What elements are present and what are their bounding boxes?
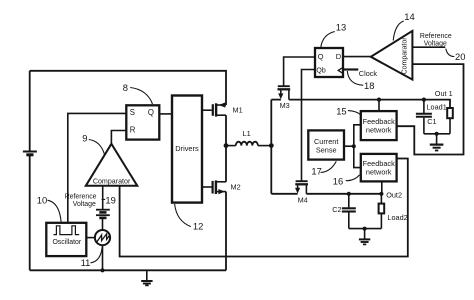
svg-text:D: D [336,52,342,61]
text reference voltage [65,194,97,208]
label 8 [123,82,153,104]
svg-text:R: R [130,126,136,135]
node ground tap 1 [435,132,439,136]
svg-text:Out2: Out2 [386,190,402,199]
transistor M2 [202,146,241,271]
wire FB2 output to comparator 9 plus input [120,159,408,257]
svg-text:13: 13 [336,22,346,33]
wire top supply [30,71,226,105]
svg-text:11: 11 [81,257,91,268]
label 12 [175,204,204,231]
wire comparator output to R [111,131,126,144]
svg-text:network: network [366,126,392,135]
node ground tap 2 [363,227,367,231]
wire current sense output [344,145,354,147]
battery Vin [23,71,37,270]
transistor M1 [202,102,243,145]
svg-text:Sense: Sense [316,146,337,155]
svg-text:Clock: Clock [359,69,378,78]
reference voltage battery 19 [96,210,110,231]
ground C1 [430,134,444,151]
svg-text:Comparator: Comparator [402,37,409,75]
ground C2 [359,229,370,245]
svg-text:Q: Q [148,108,154,117]
svg-text:Q: Q [318,52,324,61]
svg-text:8: 8 [123,82,128,93]
transistor M4 [295,181,308,204]
label 17 [311,161,336,176]
wire C2 Load2 join [349,228,382,230]
wire ground bus [30,269,226,271]
svg-text:Reference: Reference [420,33,452,40]
wire Q to drivers [159,113,172,115]
svg-text:Qb: Qb [316,67,325,74]
svg-text:Out 1: Out 1 [435,89,453,98]
svg-text:M3: M3 [280,101,290,110]
resistor Load2 [379,194,408,229]
current sense 17 [308,130,344,159]
ground [141,270,152,285]
svg-text:19: 19 [105,194,115,205]
feedback network 15 [361,111,397,140]
svg-text:Feedback: Feedback [363,159,395,168]
drivers 12 [172,96,202,203]
svg-text:10: 10 [37,195,47,206]
comparator U14 [371,31,413,80]
wire comparator minus input [102,186,104,209]
wire rail to M3 [271,99,281,101]
transistor M3 [278,86,291,110]
wire output rail [270,100,272,194]
text reference voltage right [420,33,452,47]
svg-text:M1: M1 [233,106,243,115]
inductor L1 [226,129,271,145]
wire D input from comparator 14 [343,56,371,58]
node Out2 C2 tap [347,192,351,196]
feedback network 16 [361,154,397,182]
svg-text:Oscillator: Oscillator [52,239,81,246]
node Out1 C1 tap [422,98,426,102]
label 11 [81,247,103,268]
wire Out1 line [289,100,450,108]
oscillator 10 [46,223,95,256]
svg-text:Drivers: Drivers [175,144,199,153]
wire rail to M4 [271,193,297,195]
svg-text:Comparator: Comparator [93,177,131,185]
svg-text:16: 16 [333,175,343,186]
svg-text:Voltage: Voltage [424,40,447,47]
sawtooth generator 11 [95,230,110,272]
wire FB input bus [354,125,361,168]
svg-text:M4: M4 [298,195,308,204]
wire C1 Load1 join [424,133,450,135]
svg-text:L1: L1 [243,129,251,138]
resistor Load1 [427,103,453,134]
svg-text:9: 9 [82,132,87,143]
svg-text:C1: C1 [427,117,436,126]
wire Q to M3 gate [284,57,315,86]
wire FB1 tap from Out1 [378,100,380,112]
svg-text:18: 18 [364,80,374,91]
label 16 [333,175,360,187]
label 10 [37,195,61,223]
capacitor C2 [332,194,356,229]
label 20 [446,49,466,62]
svg-text:Load1: Load1 [427,103,447,112]
svg-text:Reference: Reference [65,194,97,201]
svg-text:Feedback: Feedback [363,117,395,126]
wire FB2 tap from Out2 [381,181,383,193]
node FB1 tap [377,98,381,102]
svg-text:17: 17 [311,166,321,177]
comparator U9 [86,144,138,186]
label 9 [82,132,104,154]
label 13 [321,22,346,48]
svg-text:M2: M2 [231,182,241,191]
wire S input from oscillator [68,113,127,222]
label 18 [347,71,374,91]
node Out2 [379,192,383,196]
label 14 [393,11,415,41]
svg-text:S: S [130,108,135,117]
svg-text:network: network [366,168,392,177]
label 15 [336,106,360,117]
svg-text:14: 14 [404,11,414,22]
SR latch 8 [126,105,159,139]
wire Out2 line [306,193,382,195]
svg-text:Voltage: Voltage [73,201,96,208]
flip-flop 13 [315,48,343,77]
capacitor C1 [416,100,437,134]
wire Qb to M4 gate [302,70,316,181]
svg-text:C2: C2 [332,205,341,214]
svg-text:15: 15 [336,106,346,117]
svg-text:Load2: Load2 [387,213,407,222]
wire clock lead [343,68,358,70]
label 19 [102,194,116,205]
node CS junction [352,144,356,148]
wire comparator 14 feedback input from FB1 [397,64,464,154]
svg-text:12: 12 [193,220,203,231]
wire reference voltage 20 stub [412,46,445,48]
node SW right [269,143,274,148]
node SW left [224,143,229,148]
svg-text:20: 20 [455,51,465,62]
